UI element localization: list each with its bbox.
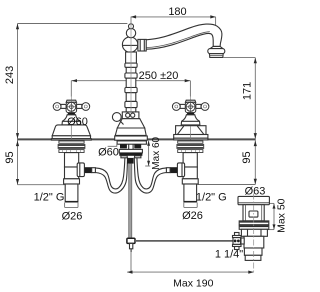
center body lower flare — [115, 128, 146, 136]
stud nut right dark — [134, 144, 141, 148]
spout collar at column — [138, 39, 146, 51]
box inner diagonals — [178, 126, 204, 134]
handle left arm — [61, 104, 66, 108]
svg-text:1 1/4": 1 1/4" — [215, 248, 243, 260]
center dark bar — [119, 153, 142, 156]
rod lower bit — [130, 243, 133, 248]
washer bar 2 — [58, 145, 85, 149]
rod square — [127, 238, 135, 243]
washer 2 dark — [240, 226, 269, 228]
rod tip — [130, 249, 132, 252]
handle cross lines — [66, 101, 76, 112]
riser Max 190 left from rod — [130, 252, 132, 272]
svg-text:1/2" G: 1/2" G — [34, 191, 65, 203]
leader D60 center — [108, 144, 117, 146]
svg-text:250 ±20: 250 ±20 — [139, 70, 179, 82]
valve body — [65, 153, 79, 167]
column bulge 4 — [125, 101, 137, 107]
extension line bottom-right 95 to shank — [198, 184, 256, 186]
svg-text:243: 243 — [4, 66, 16, 84]
collar screw right — [131, 113, 135, 117]
column tube 2 — [126, 78, 136, 87]
side fitting top cap — [235, 233, 240, 236]
arrow Max60 bottom — [147, 161, 150, 166]
riser 250 left handle — [70, 81, 72, 97]
arrow Max60 top — [147, 141, 150, 146]
riser 180 right to spout — [215, 17, 217, 27]
svg-text:Ø60: Ø60 — [67, 116, 88, 128]
fitting sleeve — [92, 168, 96, 173]
hose stub left — [121, 156, 127, 158]
svg-text:Ø26: Ø26 — [62, 210, 83, 222]
column collar — [122, 112, 139, 119]
arrow 171 bottom at deck — [254, 133, 257, 139]
arrow 95R bottom — [254, 179, 257, 185]
washer 1 dark — [240, 221, 269, 223]
dim bracket D26 — [65, 203, 78, 208]
box centerline — [190, 126, 192, 140]
shank upper — [65, 167, 79, 179]
arrow Max50 top — [273, 204, 276, 209]
extension line bottom-left 95 to shank — [18, 184, 66, 186]
side fitting upper flange — [233, 236, 242, 238]
shank bottom edge — [65, 201, 78, 203]
arrow Max190 left — [127, 271, 133, 274]
handle right ball — [82, 103, 90, 111]
dim line Max 190 — [127, 271, 253, 273]
flange lip line — [238, 202, 269, 204]
spout tube — [146, 24, 222, 49]
dim line 250 horizontal — [71, 80, 190, 82]
overflow slot — [249, 211, 258, 217]
fitting nut dark — [85, 167, 92, 173]
arrow 171 top — [254, 58, 257, 64]
column neck — [126, 67, 136, 73]
nozzle bottom ring — [209, 54, 223, 58]
right ball inner ring — [84, 105, 87, 108]
arrow Max190 right — [248, 271, 254, 274]
side fitting bottom cap — [235, 247, 240, 250]
lever arm — [120, 120, 124, 124]
svg-text:95: 95 — [4, 151, 16, 163]
riser 180 left centerline — [130, 17, 132, 23]
spout tube inner shading line — [146, 32, 210, 48]
pop-up rod — [129, 164, 132, 239]
pop-up lever ring — [112, 113, 121, 122]
bell rim line — [62, 120, 80, 122]
drain neck — [243, 205, 264, 221]
column bulge 1 — [125, 63, 137, 67]
handle top cap — [66, 100, 76, 102]
deck line — [18, 138, 256, 140]
column centerline — [130, 18, 132, 112]
dome — [52, 125, 90, 136]
svg-text:171: 171 — [242, 82, 254, 100]
side fitting ball dots — [234, 240, 237, 243]
box — [176, 126, 206, 135]
arrow Max50 bottom — [273, 224, 276, 229]
dim line 180 — [131, 16, 216, 18]
column big sphere — [122, 37, 137, 52]
dim line 171/95 right vertical — [254, 58, 256, 185]
dim Max 50 vertical — [273, 203, 275, 229]
svg-text:95: 95 — [241, 151, 253, 163]
left ball inner ring — [56, 105, 59, 108]
locknut flats — [248, 229, 262, 236]
svg-text:Ø63: Ø63 — [245, 186, 266, 198]
column tube 3 — [126, 93, 136, 102]
fitting flange — [77, 163, 84, 177]
dome base plate 2 — [51, 139, 91, 140]
arrowheads — [16, 15, 276, 273]
shank nut — [64, 179, 80, 184]
column ball — [126, 28, 135, 37]
tick Max 50 bottom — [267, 229, 274, 231]
handle bell — [62, 115, 81, 125]
arrow 180 left — [131, 15, 137, 18]
column top knob — [129, 24, 134, 29]
column bulge 3 — [125, 88, 137, 93]
arrow 180 right — [210, 15, 216, 18]
nozzle torus ring — [208, 49, 225, 54]
dim line 243/95 left vertical — [17, 24, 19, 185]
washer bar 1 — [59, 141, 84, 143]
svg-text:Ø60: Ø60 — [98, 146, 119, 158]
handle stem dark — [67, 113, 75, 115]
arrow 250 left — [72, 79, 78, 82]
handle centerline — [70, 96, 72, 114]
svg-text:180: 180 — [168, 6, 186, 18]
washer bar 3 — [59, 150, 84, 153]
hose inner edge — [95, 157, 125, 189]
tick Max 50 top — [268, 202, 274, 204]
riser 250 right handle — [189, 81, 191, 97]
center washer — [119, 149, 142, 153]
stud nut left dark — [120, 144, 127, 148]
column bulge 2 — [125, 73, 137, 78]
sphere equator — [123, 44, 138, 46]
nozzle flare — [210, 46, 223, 48]
svg-text:Max 190: Max 190 — [173, 278, 213, 290]
neck inner wall lines — [246, 205, 262, 221]
handle boss inner circle — [69, 105, 73, 109]
hose outer edge — [95, 157, 127, 193]
right valve under deck (mirror) — [134, 141, 203, 207]
drain flange — [238, 196, 269, 204]
arrow 95R top at deck — [254, 141, 257, 147]
box base plate 2 — [174, 138, 208, 140]
svg-text:Max 60: Max 60 — [151, 136, 162, 169]
box base plate — [174, 135, 208, 139]
hose stub right — [135, 156, 141, 158]
dome base plate — [52, 136, 90, 139]
dome centerline — [70, 126, 72, 140]
drain locknut — [241, 229, 267, 236]
horizontal link rod — [135, 240, 233, 242]
fitting flange line — [79, 163, 81, 177]
arrow 243 bottom at deck — [16, 133, 19, 139]
shank tube — [65, 184, 78, 202]
side fitting middle — [233, 238, 241, 245]
bar3 knurl ticks — [63, 150, 81, 152]
tailpipe upper — [244, 248, 262, 255]
column tube 4 — [126, 108, 136, 112]
washer bar 2 dark bands — [59, 146, 85, 148]
handle boss circle — [67, 102, 76, 111]
tailpipe lower — [245, 255, 261, 260]
drain washer 1 — [239, 221, 269, 225]
tick Max 60 bottom — [145, 165, 150, 167]
side fitting lower flange — [233, 244, 242, 246]
arrow 243 top — [16, 24, 19, 30]
drain lower body — [244, 236, 264, 248]
rod housing lines — [129, 144, 133, 149]
collar screw left — [126, 113, 130, 117]
center body bell — [117, 119, 144, 128]
arrow 95L bottom — [16, 179, 19, 185]
svg-text:1/2" G: 1/2" G — [196, 191, 227, 203]
drain washer 2 — [239, 225, 269, 229]
nozzle bottom midline — [210, 54, 223, 56]
center body base plate — [115, 136, 148, 140]
arrow 250 right — [185, 79, 191, 82]
side fitting stub — [241, 238, 244, 244]
handle boss square — [66, 102, 77, 112]
dim Max 60 vertical — [148, 141, 150, 166]
drain centerline — [253, 194, 255, 272]
rod guide dark — [127, 158, 134, 164]
spout collar ring lines — [140, 39, 144, 51]
svg-text:Ø26: Ø26 — [182, 210, 203, 222]
extension line top from 243 to spout ball — [18, 23, 128, 25]
column tube below sphere — [126, 52, 137, 63]
extension line nozzle to 171 — [224, 57, 256, 59]
svg-text:Max 50: Max 50 — [275, 198, 287, 233]
center flange — [117, 141, 146, 144]
right handle top — [172, 96, 209, 125]
handle left ball — [53, 103, 61, 111]
handle right arm — [76, 104, 81, 108]
arrow 95L top at deck — [16, 141, 19, 147]
